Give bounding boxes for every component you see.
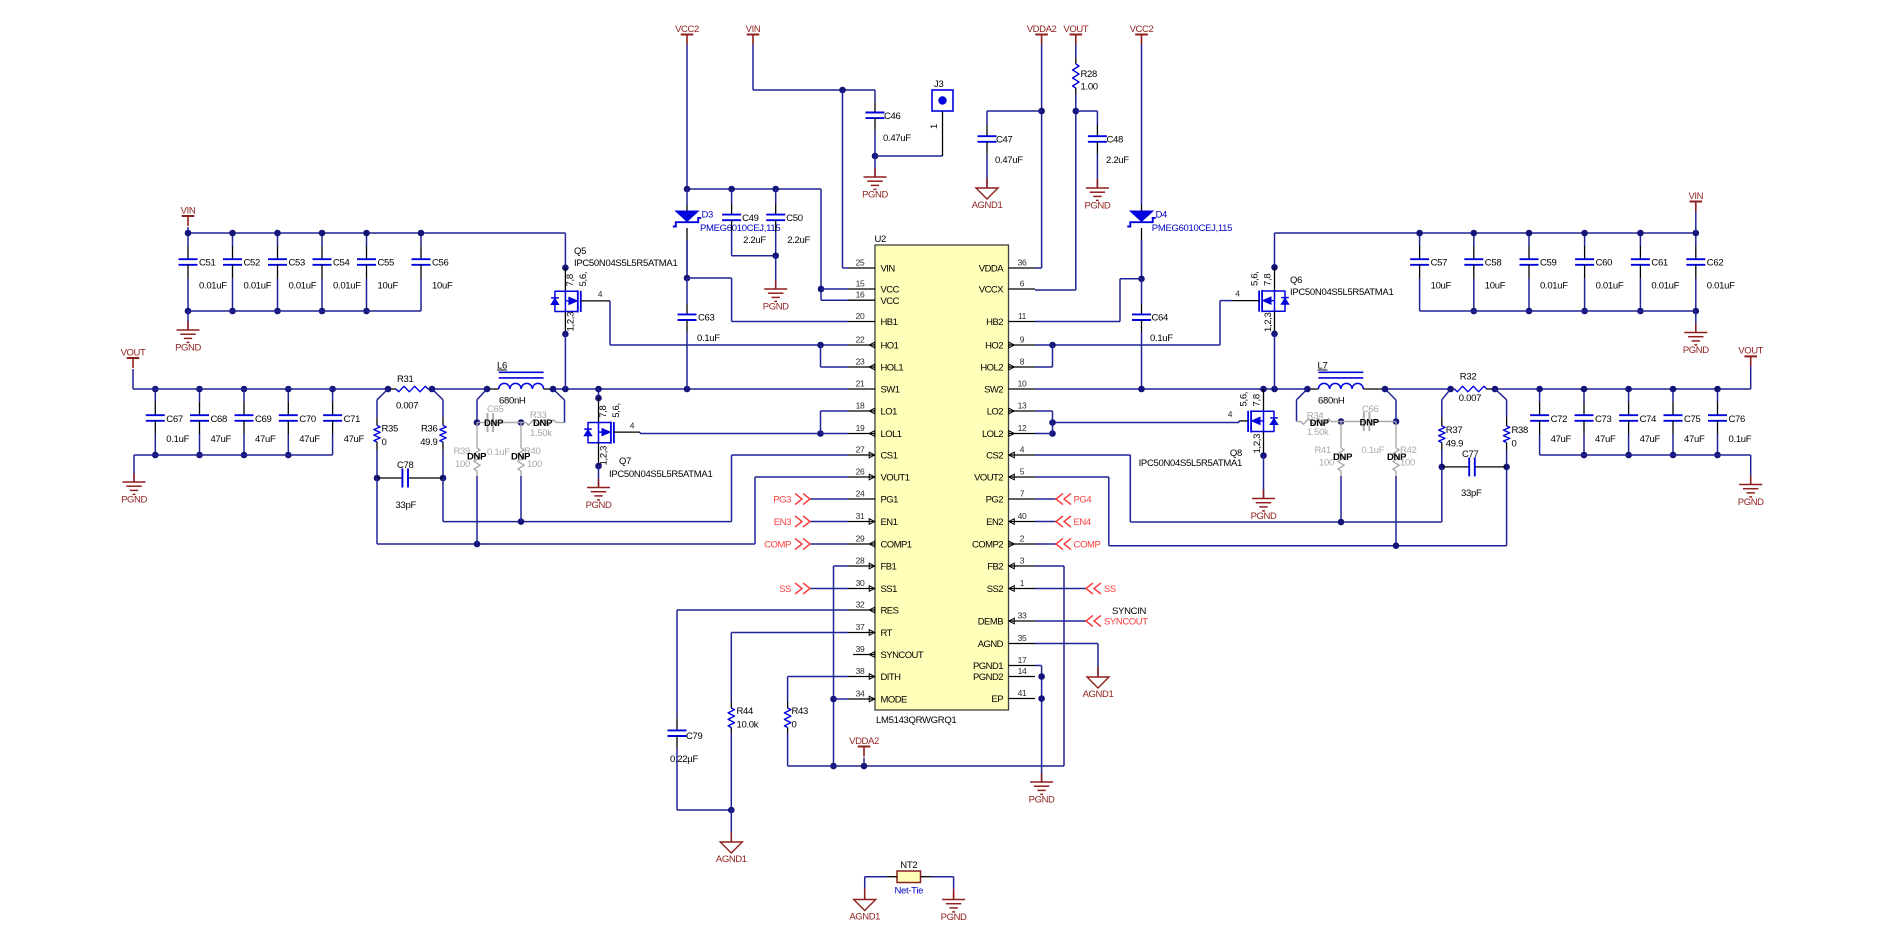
svg-text:COMP2: COMP2 (972, 540, 1003, 551)
svg-text:NT2: NT2 (900, 860, 917, 871)
svg-text:DNP: DNP (467, 452, 487, 463)
svg-text:VDDA2: VDDA2 (1027, 24, 1057, 35)
svg-text:VIN: VIN (1688, 191, 1703, 202)
svg-text:C54: C54 (333, 258, 350, 269)
svg-text:5,6,: 5,6, (1239, 392, 1250, 407)
svg-text:PGND: PGND (1084, 201, 1110, 212)
svg-text:13: 13 (1018, 401, 1027, 411)
svg-text:2.2uF: 2.2uF (743, 235, 766, 246)
svg-text:CS2: CS2 (986, 451, 1003, 462)
svg-text:R32: R32 (1460, 372, 1477, 383)
svg-text:DNP: DNP (1333, 452, 1353, 463)
svg-text:10uF: 10uF (1431, 281, 1452, 292)
svg-text:29: 29 (856, 534, 865, 544)
svg-text:12: 12 (1018, 423, 1027, 433)
svg-text:38: 38 (856, 666, 865, 676)
svg-text:C71: C71 (344, 414, 361, 425)
svg-text:IPC50N04S5L5R5ATMA1: IPC50N04S5L5R5ATMA1 (574, 258, 677, 269)
svg-text:Q7: Q7 (619, 456, 631, 467)
svg-text:R35: R35 (382, 424, 399, 435)
svg-text:R43: R43 (792, 706, 809, 717)
svg-text:VOUT: VOUT (121, 347, 146, 358)
svg-text:C69: C69 (255, 414, 272, 425)
svg-text:PGND: PGND (1251, 511, 1277, 522)
svg-text:47uF: 47uF (1551, 434, 1572, 445)
svg-text:C67: C67 (166, 414, 183, 425)
svg-text:25: 25 (856, 258, 865, 268)
svg-text:HO2: HO2 (985, 341, 1003, 352)
svg-text:22: 22 (856, 335, 865, 345)
svg-text:28: 28 (856, 556, 865, 566)
svg-text:1.00: 1.00 (1081, 82, 1098, 93)
svg-text:47uF: 47uF (255, 434, 276, 445)
svg-text:FB2: FB2 (987, 562, 1003, 573)
svg-text:0.47uF: 0.47uF (995, 155, 1023, 166)
svg-text:0.01uF: 0.01uF (1707, 281, 1735, 292)
svg-text:COMP: COMP (764, 539, 791, 550)
svg-text:C73: C73 (1595, 414, 1612, 425)
svg-text:4: 4 (1228, 409, 1233, 419)
svg-text:0.22µF: 0.22µF (670, 754, 698, 765)
svg-text:35: 35 (1018, 633, 1027, 643)
svg-text:0.01uF: 0.01uF (1596, 281, 1624, 292)
svg-text:C74: C74 (1640, 414, 1657, 425)
svg-text:2: 2 (1020, 534, 1025, 544)
svg-text:1,2,3: 1,2,3 (599, 446, 610, 466)
svg-text:C50: C50 (786, 213, 803, 224)
svg-text:Q6: Q6 (1290, 275, 1302, 286)
svg-text:10uF: 10uF (1485, 281, 1506, 292)
svg-text:C48: C48 (1107, 135, 1124, 146)
svg-text:C66: C66 (1362, 404, 1379, 415)
svg-text:4: 4 (598, 289, 603, 299)
svg-text:PGND: PGND (1029, 795, 1055, 806)
svg-text:27: 27 (856, 445, 865, 455)
svg-text:47uF: 47uF (1595, 434, 1616, 445)
svg-text:34: 34 (856, 689, 865, 699)
svg-text:AGND: AGND (978, 639, 1004, 650)
svg-text:SYNCIN: SYNCIN (1112, 606, 1147, 617)
svg-text:R36: R36 (421, 424, 438, 435)
svg-text:C65: C65 (487, 404, 504, 415)
svg-text:HB1: HB1 (881, 317, 898, 328)
svg-text:C79: C79 (686, 731, 703, 742)
svg-text:C61: C61 (1651, 258, 1668, 269)
svg-text:47uF: 47uF (299, 434, 320, 445)
svg-text:VCCX: VCCX (979, 285, 1004, 296)
svg-text:36: 36 (1018, 258, 1027, 268)
svg-text:23: 23 (856, 357, 865, 367)
svg-text:D4: D4 (1156, 210, 1168, 221)
svg-text:47uF: 47uF (1684, 434, 1705, 445)
svg-text:DEMB: DEMB (978, 617, 1003, 628)
svg-text:VOUT: VOUT (1063, 24, 1088, 35)
svg-text:30: 30 (856, 578, 865, 588)
svg-text:37: 37 (856, 622, 865, 632)
svg-text:COMP1: COMP1 (881, 540, 912, 551)
svg-text:EN3: EN3 (774, 517, 791, 528)
svg-text:Net-Tie: Net-Tie (894, 886, 923, 897)
svg-text:PG3: PG3 (773, 494, 791, 505)
svg-text:PMEG6010CEJ,115: PMEG6010CEJ,115 (1152, 223, 1232, 234)
svg-text:PGND: PGND (763, 302, 789, 313)
svg-text:100: 100 (1319, 458, 1334, 469)
svg-text:0.47uF: 0.47uF (883, 133, 911, 144)
svg-text:EN2: EN2 (986, 517, 1003, 528)
svg-text:7,8: 7,8 (1262, 274, 1273, 286)
svg-text:MODE: MODE (881, 695, 908, 706)
svg-text:C72: C72 (1551, 414, 1568, 425)
svg-text:SS: SS (1104, 584, 1116, 595)
svg-text:5,6,: 5,6, (611, 403, 622, 418)
svg-text:AGND1: AGND1 (716, 854, 747, 865)
svg-text:VDDA: VDDA (979, 264, 1004, 275)
svg-text:SW1: SW1 (881, 385, 900, 396)
svg-text:49.9: 49.9 (420, 437, 437, 448)
svg-text:AGND1: AGND1 (972, 200, 1003, 211)
svg-text:AGND1: AGND1 (849, 912, 880, 923)
svg-text:PGND: PGND (862, 190, 888, 201)
svg-text:PG2: PG2 (986, 495, 1004, 506)
svg-text:VCC: VCC (881, 296, 900, 307)
svg-text:VOUT1: VOUT1 (881, 473, 910, 484)
svg-text:15: 15 (856, 279, 865, 289)
svg-text:0.1uF: 0.1uF (1362, 445, 1385, 456)
svg-text:C75: C75 (1684, 414, 1701, 425)
svg-text:LO1: LO1 (881, 407, 898, 418)
svg-text:C57: C57 (1431, 258, 1448, 269)
svg-text:PGND2: PGND2 (973, 672, 1003, 683)
svg-text:Q5: Q5 (574, 246, 586, 257)
svg-text:40: 40 (1018, 511, 1027, 521)
svg-text:SS2: SS2 (987, 584, 1004, 595)
svg-text:C63: C63 (698, 313, 715, 324)
svg-text:100: 100 (527, 459, 542, 470)
svg-text:0.01uF: 0.01uF (199, 281, 227, 292)
svg-text:10uF: 10uF (432, 281, 453, 292)
svg-text:LM5143QRWGRQ1: LM5143QRWGRQ1 (876, 715, 956, 726)
svg-text:FB1: FB1 (881, 562, 897, 573)
svg-text:49.9: 49.9 (1446, 439, 1463, 450)
svg-text:R31: R31 (397, 374, 414, 385)
svg-text:U2: U2 (875, 234, 887, 245)
svg-text:DNP: DNP (1360, 417, 1380, 428)
svg-text:AGND1: AGND1 (1083, 689, 1114, 700)
svg-text:2.2uF: 2.2uF (787, 235, 810, 246)
svg-text:47uF: 47uF (1640, 434, 1661, 445)
svg-text:PGND: PGND (1738, 497, 1764, 508)
svg-text:0.1uF: 0.1uF (1150, 333, 1173, 344)
svg-text:47uF: 47uF (211, 434, 232, 445)
svg-text:VCC: VCC (881, 285, 900, 296)
svg-text:1,2,3: 1,2,3 (566, 312, 577, 332)
svg-text:100: 100 (455, 459, 470, 470)
svg-text:L6: L6 (497, 361, 507, 372)
svg-text:L7: L7 (1318, 361, 1328, 372)
svg-text:PGND: PGND (941, 912, 967, 923)
svg-text:PGND: PGND (1683, 345, 1709, 356)
svg-text:R37: R37 (1446, 425, 1463, 436)
svg-text:RES: RES (881, 606, 899, 617)
svg-text:SW2: SW2 (984, 385, 1003, 396)
svg-text:1: 1 (929, 124, 940, 129)
svg-text:IPC50N04S5L5R5ATMA1: IPC50N04S5L5R5ATMA1 (609, 469, 712, 480)
svg-text:LOL2: LOL2 (982, 429, 1003, 440)
svg-text:C52: C52 (244, 258, 261, 269)
svg-text:5,6,: 5,6, (1250, 271, 1261, 286)
svg-text:C78: C78 (397, 460, 414, 471)
svg-text:PG4: PG4 (1074, 494, 1092, 505)
svg-text:SS1: SS1 (881, 584, 898, 595)
svg-text:0: 0 (1512, 439, 1517, 450)
svg-text:C55: C55 (378, 258, 395, 269)
svg-text:47uF: 47uF (344, 434, 365, 445)
svg-text:VCC2: VCC2 (1130, 24, 1154, 35)
svg-text:R41: R41 (1314, 445, 1331, 456)
svg-text:VIN: VIN (881, 264, 896, 275)
svg-text:7,8: 7,8 (1251, 394, 1262, 406)
svg-text:0: 0 (792, 720, 797, 731)
svg-text:3: 3 (1020, 556, 1025, 566)
svg-text:VOUT2: VOUT2 (974, 473, 1003, 484)
svg-text:IPC50N04S5L5R5ATMA1: IPC50N04S5L5R5ATMA1 (1139, 458, 1242, 469)
svg-text:PGND: PGND (586, 500, 612, 511)
svg-text:C46: C46 (884, 111, 901, 122)
svg-text:LO2: LO2 (987, 407, 1004, 418)
svg-text:32: 32 (856, 600, 865, 610)
svg-text:PMEG6010CEJ,115: PMEG6010CEJ,115 (700, 223, 780, 234)
svg-text:31: 31 (856, 511, 865, 521)
svg-text:R28: R28 (1081, 69, 1098, 80)
svg-text:18: 18 (856, 401, 865, 411)
svg-text:R38: R38 (1512, 425, 1529, 436)
svg-text:C53: C53 (289, 258, 306, 269)
svg-text:41: 41 (1018, 688, 1027, 698)
svg-text:4: 4 (1235, 289, 1240, 299)
svg-text:39: 39 (856, 644, 865, 654)
svg-text:SYNCOUT: SYNCOUT (881, 650, 924, 661)
svg-text:10.0k: 10.0k (737, 720, 759, 731)
svg-text:11: 11 (1018, 311, 1027, 321)
svg-text:EN4: EN4 (1074, 517, 1091, 528)
svg-text:VDDA2: VDDA2 (849, 736, 879, 747)
svg-text:C47: C47 (996, 135, 1013, 146)
svg-text:D3: D3 (702, 210, 714, 221)
svg-text:CS1: CS1 (881, 451, 898, 462)
svg-text:HOL1: HOL1 (881, 363, 904, 374)
svg-text:PGND: PGND (121, 495, 147, 506)
svg-text:0.1uF: 0.1uF (1729, 434, 1752, 445)
svg-text:0.1uF: 0.1uF (697, 333, 720, 344)
svg-text:2.2uF: 2.2uF (1106, 155, 1129, 166)
svg-text:7,8: 7,8 (565, 274, 576, 286)
svg-text:1.50k: 1.50k (1307, 427, 1329, 438)
svg-text:0.007: 0.007 (1459, 393, 1481, 404)
svg-text:HOL2: HOL2 (980, 363, 1003, 374)
svg-text:17: 17 (1018, 655, 1027, 665)
svg-text:SS: SS (779, 584, 791, 595)
svg-text:10uF: 10uF (378, 281, 399, 292)
svg-text:6: 6 (1020, 279, 1025, 289)
svg-text:10: 10 (1018, 379, 1027, 389)
svg-text:20: 20 (856, 311, 865, 321)
svg-text:0.01uF: 0.01uF (333, 281, 361, 292)
svg-text:24: 24 (856, 489, 865, 499)
svg-text:PGND1: PGND1 (973, 661, 1003, 672)
svg-text:VOUT: VOUT (1738, 346, 1763, 357)
svg-text:0.1uF: 0.1uF (487, 447, 510, 458)
svg-text:4: 4 (1020, 445, 1025, 455)
svg-text:SYNCOUT: SYNCOUT (1104, 616, 1148, 627)
svg-text:RT: RT (881, 628, 893, 639)
svg-text:0.007: 0.007 (396, 401, 418, 412)
svg-text:C64: C64 (1152, 313, 1169, 324)
svg-text:0.1uF: 0.1uF (166, 434, 189, 445)
svg-text:EP: EP (991, 694, 1003, 705)
svg-text:0.01uF: 0.01uF (244, 281, 272, 292)
svg-text:14: 14 (1018, 666, 1027, 676)
svg-text:VIN: VIN (746, 24, 761, 35)
svg-text:33: 33 (1018, 611, 1027, 621)
svg-text:J3: J3 (934, 79, 943, 90)
svg-text:C77: C77 (1462, 449, 1479, 460)
svg-text:7: 7 (1020, 489, 1025, 499)
svg-text:C60: C60 (1596, 258, 1613, 269)
svg-text:C58: C58 (1485, 258, 1502, 269)
svg-text:680nH: 680nH (1318, 396, 1345, 407)
svg-text:DNP: DNP (484, 418, 504, 429)
svg-text:IPC50N04S5L5R5ATMA1: IPC50N04S5L5R5ATMA1 (1290, 287, 1393, 298)
svg-text:C59: C59 (1540, 258, 1557, 269)
svg-text:C51: C51 (199, 258, 216, 269)
svg-text:5,6,: 5,6, (578, 272, 589, 287)
svg-text:33pF: 33pF (1461, 488, 1482, 499)
svg-text:VIN: VIN (181, 205, 196, 216)
svg-text:0: 0 (382, 437, 387, 448)
svg-text:VCC2: VCC2 (675, 24, 699, 35)
svg-text:8: 8 (1020, 357, 1025, 367)
svg-text:HB2: HB2 (986, 317, 1003, 328)
svg-text:1.50k: 1.50k (530, 428, 552, 439)
svg-text:26: 26 (856, 467, 865, 477)
svg-text:C49: C49 (742, 213, 759, 224)
svg-text:7,8: 7,8 (598, 405, 609, 417)
svg-text:PG1: PG1 (881, 495, 899, 506)
svg-text:LOL1: LOL1 (881, 429, 902, 440)
svg-text:R44: R44 (737, 706, 754, 717)
svg-text:0.01uF: 0.01uF (1540, 281, 1568, 292)
svg-text:C56: C56 (432, 258, 449, 269)
svg-text:PGND: PGND (175, 343, 201, 354)
svg-text:HO1: HO1 (881, 341, 899, 352)
svg-text:C70: C70 (299, 414, 316, 425)
svg-text:33pF: 33pF (396, 500, 417, 511)
svg-text:16: 16 (856, 290, 865, 300)
svg-text:C62: C62 (1707, 258, 1724, 269)
svg-text:1,2,3: 1,2,3 (1252, 434, 1263, 454)
svg-text:C76: C76 (1729, 414, 1746, 425)
svg-text:C68: C68 (211, 414, 228, 425)
svg-text:1: 1 (1020, 578, 1025, 588)
svg-text:21: 21 (856, 379, 865, 389)
svg-text:0.01uF: 0.01uF (289, 281, 317, 292)
svg-text:COMP: COMP (1074, 539, 1101, 550)
svg-text:EN1: EN1 (881, 517, 898, 528)
svg-text:0.01uF: 0.01uF (1651, 281, 1679, 292)
svg-text:5: 5 (1020, 467, 1025, 477)
svg-text:9: 9 (1020, 335, 1025, 345)
svg-text:DITH: DITH (881, 672, 902, 683)
svg-text:1,2,3: 1,2,3 (1263, 312, 1274, 332)
svg-text:100: 100 (1400, 458, 1415, 469)
svg-text:4: 4 (630, 421, 635, 431)
svg-text:19: 19 (856, 423, 865, 433)
